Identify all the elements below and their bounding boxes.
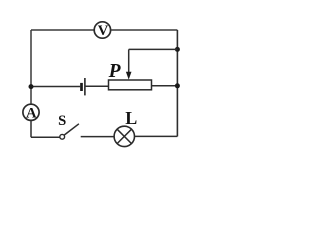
wire: top wire left segment (top-left corner to voltmeter) bbox=[31, 30, 94, 104]
wire: top wire right segment (voltmeter to top-right corner) bbox=[111, 29, 178, 31]
ammeter A1 bbox=[23, 104, 39, 121]
svg-text:V: V bbox=[98, 23, 109, 39]
svg-text:P: P bbox=[108, 61, 122, 82]
battery cell (short thick negative plate) bbox=[80, 83, 83, 91]
svg-text:L: L bbox=[125, 108, 137, 128]
svg-text:A: A bbox=[26, 105, 37, 121]
wire: middle branch from left wire to battery bbox=[31, 86, 80, 88]
node: junction on left wire (middle branch) bbox=[29, 84, 34, 89]
rheostat P body (resistor box) bbox=[109, 80, 152, 90]
wire: bottom wire lamp to bottom-right corner bbox=[135, 135, 178, 137]
voltmeter V1 bbox=[94, 22, 110, 39]
node: junction on right wire (middle branch) bbox=[175, 83, 180, 88]
wire: bottom wire switch to lamp bbox=[81, 136, 114, 138]
wire: right vertical wire bbox=[176, 30, 178, 136]
wire: left wire lower segment (ammeter to bottom-left corner) bbox=[31, 120, 60, 137]
battery cell (long thin positive plate) bbox=[84, 78, 86, 95]
wire: rheostat box to right wire bbox=[152, 85, 178, 87]
svg-text:S: S bbox=[58, 113, 66, 129]
wire: slider branch vertical with arrow onto rheostat bbox=[126, 49, 132, 79]
node: junction of slider branch on right wire bbox=[175, 47, 180, 52]
wire: slider branch horizontal (junction to above rheostat) bbox=[129, 48, 178, 50]
switch S pivot bbox=[60, 134, 65, 139]
lamp L bbox=[114, 126, 134, 146]
wire: battery to rheostat box bbox=[85, 85, 109, 87]
switch S lever (open) bbox=[64, 124, 79, 135]
